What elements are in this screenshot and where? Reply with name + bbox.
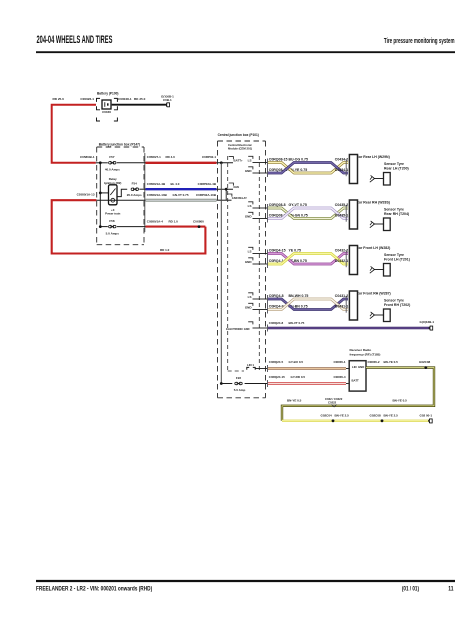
junction bus relay feed <box>99 192 102 195</box>
svg-text:GY-BU 0.5: GY-BU 0.5 <box>289 360 304 364</box>
svg-text:LS: LS <box>248 204 252 208</box>
svg-text:LS: LS <box>248 295 252 299</box>
svg-text:BN-YE 0.5: BN-YE 0.5 <box>393 398 408 402</box>
svg-text:C0RQ08-15: C0RQ08-15 <box>269 158 288 162</box>
row 4 connector bar right <box>345 296 347 313</box>
wire BN-VT 0.75 electronic ground <box>268 327 429 329</box>
svg-text:BU-OG 0.75: BU-OG 0.75 <box>289 158 309 162</box>
wire F22 out <box>245 383 268 385</box>
svg-text:GND RELAY: GND RELAY <box>232 196 247 200</box>
wire RD 1.0 loop down and around to relay feed <box>52 200 206 253</box>
svg-text:C0434-1: C0434-1 <box>335 168 348 172</box>
junction bus to fuse F22 <box>220 382 223 385</box>
svg-text:FREELANDER 2 - LR2 - VIN: 0002: FREELANDER 2 - LR2 - VIN: 000201 onwards… <box>36 586 152 593</box>
svg-text:BN-YE 2.5: BN-YE 2.5 <box>384 413 399 417</box>
svg-text:GND: GND <box>245 260 253 264</box>
wire F57 to connector <box>117 162 146 164</box>
svg-text:Power train: Power train <box>105 211 121 215</box>
svg-text:(01 / 01): (01 / 01) <box>402 586 419 593</box>
wire relay coil row <box>96 199 145 201</box>
svg-text:F57: F57 <box>109 155 115 159</box>
junction CJB bus tap <box>220 161 223 164</box>
svg-text:LS: LS <box>248 159 252 163</box>
svg-text:C0580/B-1: C0580/B-1 <box>80 155 95 159</box>
row 2 connector bar right <box>345 205 347 222</box>
junction splice C0X800 <box>198 225 201 228</box>
svg-text:Sensor Tyre: Sensor Tyre <box>384 253 404 257</box>
BJB internal bus <box>99 163 101 227</box>
svg-text:BL 4.0: BL 4.0 <box>171 182 180 186</box>
svg-text:Battery junction box (P147): Battery junction box (P147) <box>99 142 140 146</box>
row 1 connector C0RQ08 <box>267 159 269 178</box>
svg-text:G(X)12B-1: G(X)12B-1 <box>420 320 435 324</box>
svg-text:ELECTRONIC GND: ELECTRONIC GND <box>226 327 249 331</box>
svg-text:LS: LS <box>248 250 252 254</box>
svg-text:Rear RH (T204): Rear RH (T204) <box>384 212 409 216</box>
svg-text:40.0 Amps: 40.0 Amps <box>105 168 120 172</box>
svg-text:C0RQ4-15: C0RQ4-15 <box>269 249 286 253</box>
svg-text:Tire pressure monitoring syste: Tire pressure monitoring system <box>384 38 455 45</box>
svg-text:C0R26-4: C0R26-4 <box>333 375 345 379</box>
row 4 connector C0RQ4 <box>267 295 269 314</box>
svg-text:BATT: BATT <box>352 379 360 383</box>
svg-text:F58: F58 <box>109 219 115 223</box>
wire GND RELAY stub into CJB <box>217 199 232 201</box>
row 3 connector C0RQ4 <box>267 250 269 269</box>
svg-text:RD 4.0: RD 4.0 <box>166 155 176 159</box>
CJB internal bus <box>220 163 222 384</box>
connector C0RQ24-5 <box>267 365 269 372</box>
row 1 antenna coupling <box>374 178 383 180</box>
svg-text:BK 25.0: BK 25.0 <box>134 97 146 101</box>
row 3 twisted pair wire VT-BN 0.75 <box>268 254 348 265</box>
header rule <box>36 51 455 53</box>
svg-text:C0R26-1: C0R26-1 <box>333 360 345 364</box>
row 3 antenna coupling <box>374 269 383 271</box>
wire BATT stub to receiver <box>346 383 349 385</box>
row 4 antenna coupling <box>374 314 383 316</box>
svg-text:5.0 Amps: 5.0 Amps <box>106 231 120 235</box>
svg-text:C0431-2: C0431-2 <box>335 294 348 298</box>
row 3 connector bar right <box>345 250 347 267</box>
wire relay to fuse F54 <box>117 189 127 196</box>
svg-text:Rear LH (T200): Rear LH (T200) <box>384 167 409 171</box>
svg-text:Sensor Tyre: Sensor Tyre <box>384 208 404 212</box>
junction splice G02C08 on receiver ground <box>424 366 427 369</box>
svg-text:GND: GND <box>245 169 253 173</box>
svg-text:frequency (RF) (T185): frequency (RF) (T185) <box>350 353 381 357</box>
svg-text:BN-YE 0.5: BN-YE 0.5 <box>384 360 399 364</box>
svg-text:GND: GND <box>358 365 364 369</box>
BJB connector bar C0580 <box>144 153 146 232</box>
svg-text:C0RP02-1: C0RP02-1 <box>202 155 216 159</box>
wire BK 25.0 battery ground <box>112 104 166 106</box>
svg-text:C0RQ24-5: C0RQ24-5 <box>269 360 284 364</box>
svg-text:RD 1.0: RD 1.0 <box>160 248 170 252</box>
connector C0RQ24-8 <box>267 325 269 332</box>
wire F58 out <box>117 226 146 228</box>
svg-text:C0RP02A-4B: C0RP02A-4B <box>198 182 217 186</box>
svg-text:LIN: LIN <box>352 365 357 369</box>
row 2 connector C0RQ08 <box>267 204 269 223</box>
svg-text:C00026-1: C00026-1 <box>80 97 94 101</box>
svg-text:11: 11 <box>448 586 454 593</box>
svg-text:204-04 WHEELS AND TIRES: 204-04 WHEELS AND TIRES <box>37 33 113 46</box>
svg-text:YE 0.75: YE 0.75 <box>289 249 302 253</box>
row 4 twisted pair wire BU-BN 0.75 <box>268 299 348 310</box>
svg-text:C0B-1: C0B-1 <box>163 98 172 102</box>
row 1 twisted pair wire BU-OG 0.75 <box>268 163 348 174</box>
svg-text:Front RH (T202): Front RH (T202) <box>384 303 410 307</box>
row 2 antenna coupling <box>374 223 383 225</box>
row 4 twisted pair wire BN-WH 0.75 <box>268 299 348 310</box>
wire GY-RD 0.5 receiver battery feed <box>268 382 346 384</box>
svg-text:C0222: C0222 <box>328 401 337 405</box>
svg-text:C0580/1A-4B: C0580/1A-4B <box>147 182 166 186</box>
svg-text:C0432-1: C0432-1 <box>335 259 348 263</box>
row 2 twisted pair wire GY-VT 0.75 <box>268 208 348 219</box>
svg-text:C0580/1A-10B: C0580/1A-10B <box>147 193 168 197</box>
wire bus to relay <box>100 192 108 194</box>
svg-text:C0X800: C0X800 <box>193 219 204 223</box>
svg-text:C0432-2: C0432-2 <box>335 249 348 253</box>
wire GY-BU 0.5 LIN bus <box>268 367 346 369</box>
svg-text:GN-VT 0.75: GN-VT 0.75 <box>173 193 189 197</box>
fuse F58 5A <box>100 226 108 228</box>
svg-text:BN-VT 0.75: BN-VT 0.75 <box>289 321 305 325</box>
svg-text:F22: F22 <box>236 376 242 380</box>
svg-text:Front LH (T201): Front LH (T201) <box>384 258 410 262</box>
junction IGN node <box>225 188 228 191</box>
svg-text:C0RQ4-8: C0RQ4-8 <box>269 294 284 298</box>
svg-text:C0580/7-1: C0580/7-1 <box>147 155 161 159</box>
svg-text:C0580/1A-13: C0580/1A-13 <box>77 193 95 197</box>
svg-text:Battery (P100): Battery (P100) <box>97 92 118 96</box>
svg-text:BN-YE 0.5: BN-YE 0.5 <box>287 398 302 402</box>
svg-text:C0046: C0046 <box>102 110 111 114</box>
svg-text:C0RQ08-8: C0RQ08-8 <box>269 203 286 207</box>
svg-text:GY-RD 0.5: GY-RD 0.5 <box>291 375 306 379</box>
svg-text:F54: F54 <box>132 182 138 186</box>
wire BATT+ stub into CJB <box>217 162 234 164</box>
row 2 twisted pair wire BN-GN 0.75 <box>268 208 348 219</box>
svg-text:5.0 Amp: 5.0 Amp <box>234 388 246 392</box>
svg-text:GND: GND <box>245 215 253 219</box>
wire IGN stub into CJB <box>217 188 234 190</box>
svg-text:C0RQ24-15: C0RQ24-15 <box>269 375 285 379</box>
svg-text:GND: GND <box>245 306 253 310</box>
svg-text:C0R26-2: C0R26-2 <box>368 360 380 364</box>
svg-text:G02C08: G02C08 <box>419 360 431 364</box>
wire RD 25.0 battery feed <box>52 105 96 163</box>
svg-text:Central junction box (P101): Central junction box (P101) <box>218 133 259 137</box>
connector C0RQ24-15 <box>267 380 269 387</box>
svg-text:Module (CEM 201): Module (CEM 201) <box>228 147 252 151</box>
svg-text:IGN: IGN <box>234 185 239 189</box>
row 3 twisted pair wire YE 0.75 <box>268 254 348 265</box>
svg-text:BN-WH 0.75: BN-WH 0.75 <box>289 294 309 298</box>
svg-text:LIN 1: LIN 1 <box>247 363 254 367</box>
svg-text:RD 25.0: RD 25.0 <box>53 97 65 101</box>
junction splice G02C08 bus <box>381 419 384 422</box>
svg-text:C0580/1A-4: C0580/1A-4 <box>147 219 164 223</box>
row 1 twisted pair wire BN-YE 0.75 <box>268 163 348 174</box>
svg-text:C0435-2: C0435-2 <box>335 203 348 207</box>
svg-text:Sensor Tyre: Sensor Tyre <box>384 162 404 166</box>
svg-text:C0RP02A-10B: C0RP02A-10B <box>196 193 217 197</box>
svg-text:G02C04: G02C04 <box>321 413 333 417</box>
svg-text:C00048-1: C00048-1 <box>118 97 132 101</box>
svg-text:Receiver Radio: Receiver Radio <box>350 348 372 352</box>
svg-text:C0431-1: C0431-1 <box>335 305 348 309</box>
junction splice G02C04 <box>332 419 335 422</box>
row 1 connector bar right <box>345 159 347 176</box>
svg-text:BN-YE 2.5: BN-YE 2.5 <box>335 413 350 417</box>
svg-text:GY-VT 0.75: GY-VT 0.75 <box>289 203 307 207</box>
svg-text:Sensor Tyre: Sensor Tyre <box>384 299 404 303</box>
svg-text:BATT+: BATT+ <box>234 158 243 162</box>
svg-text:G02 00-1: G02 00-1 <box>420 413 433 417</box>
svg-text:C0RQ24-8: C0RQ24-8 <box>269 321 284 325</box>
wire BN-YE 2.5 ground bus <box>282 420 429 422</box>
svg-text:C0434-2: C0434-2 <box>335 158 348 162</box>
svg-text:20.0 Amps: 20.0 Amps <box>127 193 142 197</box>
junction bus top <box>99 161 102 164</box>
svg-text:RD 1.0: RD 1.0 <box>169 219 179 223</box>
svg-text:C0435-1: C0435-1 <box>335 214 348 218</box>
wire LIN stub to receiver <box>346 368 349 370</box>
svg-text:G02C08: G02C08 <box>370 413 382 417</box>
wire F54 out <box>139 188 146 190</box>
footer rule <box>36 580 455 582</box>
